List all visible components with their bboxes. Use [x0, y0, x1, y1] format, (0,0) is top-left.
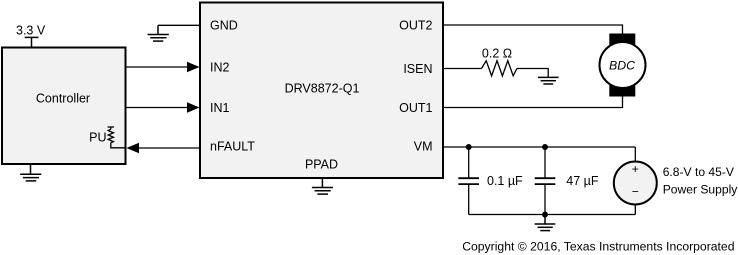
wire OUT2 to motor: [443, 25, 623, 34]
supply 3.3 V symbol: [25, 37, 39, 47]
svg-text:47 µF: 47 µF: [566, 174, 599, 188]
ground (controller): [20, 164, 41, 181]
motor BDC: [600, 34, 646, 97]
svg-text:IN2: IN2: [210, 60, 230, 74]
ground (PPAD): [312, 178, 333, 194]
controller U2 box: [2, 48, 126, 165]
wire IN1: [126, 107, 190, 109]
svg-text:Controller: Controller: [36, 91, 90, 105]
svg-text:nFAULT: nFAULT: [210, 139, 255, 153]
svg-text:BDC: BDC: [609, 59, 635, 73]
wire IN2: [126, 66, 190, 68]
svg-text:0.1 µF: 0.1 µF: [487, 174, 523, 188]
capacitor C1 0.1 uF: [458, 147, 479, 215]
arrowhead IN2: [187, 62, 200, 73]
svg-text:GND: GND: [210, 19, 238, 33]
svg-text:−: −: [632, 185, 639, 199]
IC U1 DRV8872-Q1 box: [200, 3, 443, 179]
svg-text:PU: PU: [89, 131, 106, 145]
svg-text:Power Supply: Power Supply: [663, 183, 738, 197]
svg-text:ISEN: ISEN: [403, 62, 432, 76]
svg-text:OUT1: OUT1: [399, 101, 432, 115]
svg-text:VM: VM: [414, 139, 433, 153]
node junction VM/C2: [542, 144, 548, 150]
svg-text:OUT2: OUT2: [399, 19, 432, 33]
arrowhead nFAULT: [127, 143, 140, 154]
svg-text:Copyright © 2016, Texas Instru: Copyright © 2016, Texas Instruments Inco…: [462, 239, 734, 253]
arrowhead IN1: [187, 102, 200, 113]
resistor PU (pull-up): [108, 127, 126, 148]
wire VM rail: [443, 146, 635, 148]
capacitor C2 47 uF: [535, 147, 556, 215]
ground (GND pin): [148, 25, 169, 41]
wire resistor to ground: [517, 69, 548, 78]
svg-text:+: +: [632, 162, 639, 176]
ground (ISEN): [538, 77, 559, 84]
svg-text:3.3 V: 3.3 V: [16, 23, 46, 37]
wire VM to supply: [634, 147, 636, 162]
node junction rail/ground: [542, 212, 548, 218]
svg-text:DRV8872-Q1: DRV8872-Q1: [285, 82, 360, 96]
svg-text:0.2 Ω: 0.2 Ω: [482, 47, 512, 61]
svg-text:IN1: IN1: [210, 101, 230, 115]
power supply V1: [614, 162, 657, 205]
wire OUT1 to motor: [443, 97, 623, 108]
wire supply to bottom rail: [634, 205, 636, 215]
wire ISEN: [443, 68, 482, 70]
node junction VM/C1: [466, 144, 472, 150]
resistor R1 0.2 ohm: [482, 61, 517, 76]
svg-text:6.8-V to 45-V: 6.8-V to 45-V: [663, 165, 735, 179]
wire bottom rail: [469, 214, 636, 216]
svg-text:PPAD: PPAD: [305, 157, 338, 171]
ground (bottom rail): [535, 215, 556, 231]
wire GND pin: [158, 24, 200, 26]
wire nFAULT: [138, 147, 200, 149]
